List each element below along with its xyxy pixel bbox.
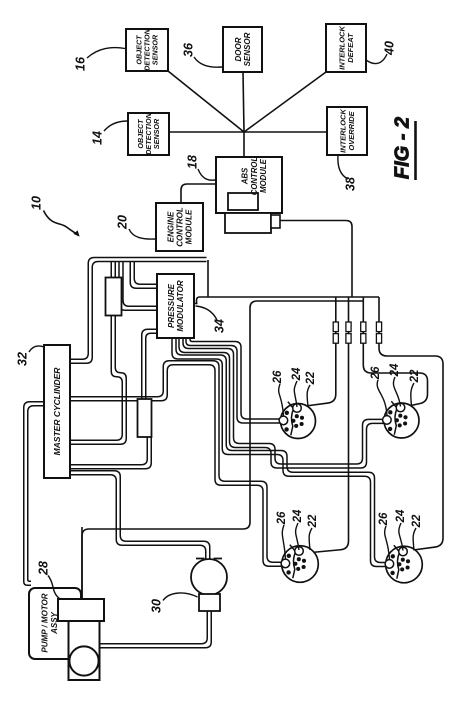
pipe main run to inline component 1 — [111, 262, 115, 279]
wire junction to object detection sensor 14 (horizontal) — [169, 131, 244, 133]
svg-text:22: 22 — [409, 369, 421, 383]
label 24 of rear-left wheel — [292, 509, 304, 550]
svg-text:24: 24 — [389, 363, 401, 377]
interlock override box — [327, 107, 367, 155]
inline connector pair 4 — [376, 322, 381, 343]
svg-text:34: 34 — [212, 319, 226, 333]
door sensor box — [223, 27, 262, 72]
pipe master cylinder to main pipe run (upper) — [70, 258, 207, 364]
pump motor circle — [69, 646, 98, 675]
label 24 of front-right wheel — [389, 363, 401, 406]
pipe main run to pressure modulator lower — [119, 262, 156, 311]
label 38 with leader — [338, 155, 357, 191]
svg-text:PUMP / MOTOR: PUMP / MOTOR — [41, 593, 50, 652]
svg-text:DOOR: DOOR — [234, 37, 243, 61]
svg-text:MODULE: MODULE — [184, 209, 193, 244]
inline component 2 (proportioning valve) — [138, 399, 152, 437]
svg-text:40: 40 — [382, 41, 396, 56]
inline connector pair 1 — [333, 322, 338, 343]
front-right wheel assembly 22/24/26 — [383, 401, 419, 438]
label 20 with leader — [115, 215, 155, 239]
label 30 with leader — [149, 593, 197, 613]
svg-text:OVERRIDE: OVERRIDE — [347, 110, 356, 150]
label 32 with leader — [15, 346, 44, 366]
svg-text:26: 26 — [272, 370, 284, 384]
label 22 of rear-right wheel — [411, 514, 423, 550]
svg-text:16: 16 — [73, 56, 87, 71]
front-left wheel assembly 22/24/26 — [279, 402, 315, 439]
wire ABS to pump head — [81, 527, 83, 600]
pump head rect — [58, 599, 104, 621]
wire speed sensor drop 2 to rear-left wheel — [306, 297, 349, 553]
pipe master cylinder to rear-left wheel — [70, 361, 283, 567]
svg-text:30: 30 — [149, 599, 163, 613]
wire junction to interlock defeat — [244, 72, 326, 132]
pipe master cylinder left to pump enclosure — [24, 402, 44, 586]
pipe pressure modulator to rear-right wheel — [172, 337, 387, 567]
pressure modulator box — [157, 274, 194, 338]
svg-text:FIG - 2: FIG - 2 — [391, 117, 413, 179]
wire speed sensor drop 4 to rear-right wheel — [379, 297, 443, 551]
svg-text:38: 38 — [343, 177, 357, 191]
wire speed sensor drop 1 to front-left wheel — [302, 297, 336, 407]
wire pressure modulator tail to bus — [193, 303, 198, 305]
rear-left wheel assembly 22/24/26 — [281, 545, 318, 583]
inline connector pair 2 — [346, 322, 351, 343]
pipe pump to accumulator — [100, 611, 212, 648]
svg-text:24: 24 — [292, 509, 304, 523]
inline component 1 (proportioning valve) — [106, 278, 122, 316]
inline connector pair 3 — [361, 322, 366, 343]
svg-text:22: 22 — [307, 514, 319, 528]
svg-text:22: 22 — [411, 514, 423, 528]
svg-text:24: 24 — [395, 509, 407, 523]
svg-text:MASTER CYCLINDER: MASTER CYCLINDER — [52, 367, 62, 456]
svg-text:18: 18 — [185, 155, 199, 169]
pipe component 2 to pressure modulator — [142, 329, 156, 400]
label 26 of rear-right wheel — [378, 512, 390, 559]
label 40 with leader — [366, 41, 396, 64]
svg-text:26: 26 — [370, 366, 382, 380]
wire junction to interlock override (horizontal) — [244, 131, 327, 133]
svg-text:24: 24 — [291, 367, 303, 381]
svg-text:32: 32 — [15, 352, 29, 366]
label 26 of rear-left wheel — [276, 511, 288, 559]
pipe component 2 to master cylinder — [70, 436, 151, 469]
pump motor assy label — [41, 593, 60, 652]
svg-text:SENSOR: SENSOR — [151, 34, 160, 65]
wire sensor fan: junction to object detection sensor 16 — [168, 71, 244, 132]
master cylinder box — [44, 345, 70, 478]
label 34 with leader — [196, 306, 227, 333]
pipe component 1 to master cylinder — [70, 315, 126, 445]
label 18 with leader — [185, 155, 215, 180]
rear-right wheel assembly 22/24/26 — [385, 545, 422, 583]
wire sensor bus lower + pump motor wire — [82, 301, 363, 599]
label 24 of rear-right wheel — [395, 509, 407, 550]
engine control module box — [156, 203, 203, 251]
wire main pipe down to bus — [207, 260, 209, 297]
label 26 of front-right wheel — [370, 366, 387, 415]
wire junction to door sensor — [243, 72, 244, 132]
object detection sensor 14 box — [128, 112, 169, 155]
pipe master cylinder to accumulator — [70, 471, 210, 560]
pipe pressure modulator to front-left wheel — [186, 337, 281, 423]
object detection sensor 16 box — [126, 28, 168, 71]
wire ABS connector tab to sensor bus — [280, 221, 352, 298]
svg-text:22: 22 — [305, 371, 317, 385]
label 36 with leader — [181, 42, 222, 67]
pipe main run to pressure modulator upper — [130, 262, 156, 289]
label 26 of front-left wheel — [272, 370, 284, 416]
svg-text:28: 28 — [36, 561, 50, 576]
label 14 with leader — [90, 121, 127, 145]
ABS module connector — [225, 213, 271, 233]
svg-text:20: 20 — [115, 215, 129, 230]
ABS connector side tab — [271, 215, 280, 228]
svg-text:SENSOR: SENSOR — [243, 32, 252, 66]
wire sensor bus upper — [197, 297, 380, 304]
label 22 of rear-left wheel — [307, 514, 319, 550]
wire engine control module to ABS module — [181, 184, 216, 203]
label 22 of front-left wheel — [305, 371, 317, 407]
label 16 with leader — [73, 48, 125, 71]
svg-text:14: 14 — [90, 131, 104, 145]
svg-text:10: 10 — [29, 196, 43, 210]
ABS module inner rect — [228, 193, 258, 210]
wire junction down to ABS control module — [243, 132, 245, 157]
accumulator cap ticks — [196, 558, 222, 560]
interlock defeat box — [326, 24, 366, 72]
label 24 of front-left wheel — [291, 367, 303, 407]
svg-text:CONTROL: CONTROL — [250, 156, 259, 195]
accumulator circle — [191, 559, 227, 595]
ABS control module U18 box — [216, 157, 282, 213]
svg-text:MODULE: MODULE — [259, 158, 268, 193]
svg-text:26: 26 — [276, 511, 288, 525]
label 10 with arrow — [29, 196, 79, 237]
pipe pressure modulator to front-right wheel — [179, 337, 385, 468]
svg-text:DEFEAT: DEFEAT — [346, 32, 355, 63]
accumulator base rect — [199, 594, 220, 611]
label 28 with leader — [36, 561, 59, 598]
svg-text:CONTROL: CONTROL — [175, 207, 184, 247]
figure title FIG - 2 — [391, 117, 415, 180]
pump cylinder rect — [69, 621, 100, 680]
svg-text:36: 36 — [181, 42, 195, 57]
wire speed sensor drop 3 to front-right wheel — [363, 297, 427, 406]
svg-text:PRESSURE: PRESSURE — [167, 283, 176, 328]
svg-text:SENSOR: SENSOR — [152, 118, 161, 149]
pump motor enclosure — [29, 588, 81, 659]
label 22 of front-right wheel — [409, 369, 421, 406]
svg-text:MODULATOR: MODULATOR — [176, 280, 185, 331]
svg-text:ABS: ABS — [241, 167, 250, 185]
svg-text:26: 26 — [378, 512, 390, 526]
ABS control module label — [241, 156, 268, 195]
svg-text:ENGINE: ENGINE — [166, 211, 175, 242]
